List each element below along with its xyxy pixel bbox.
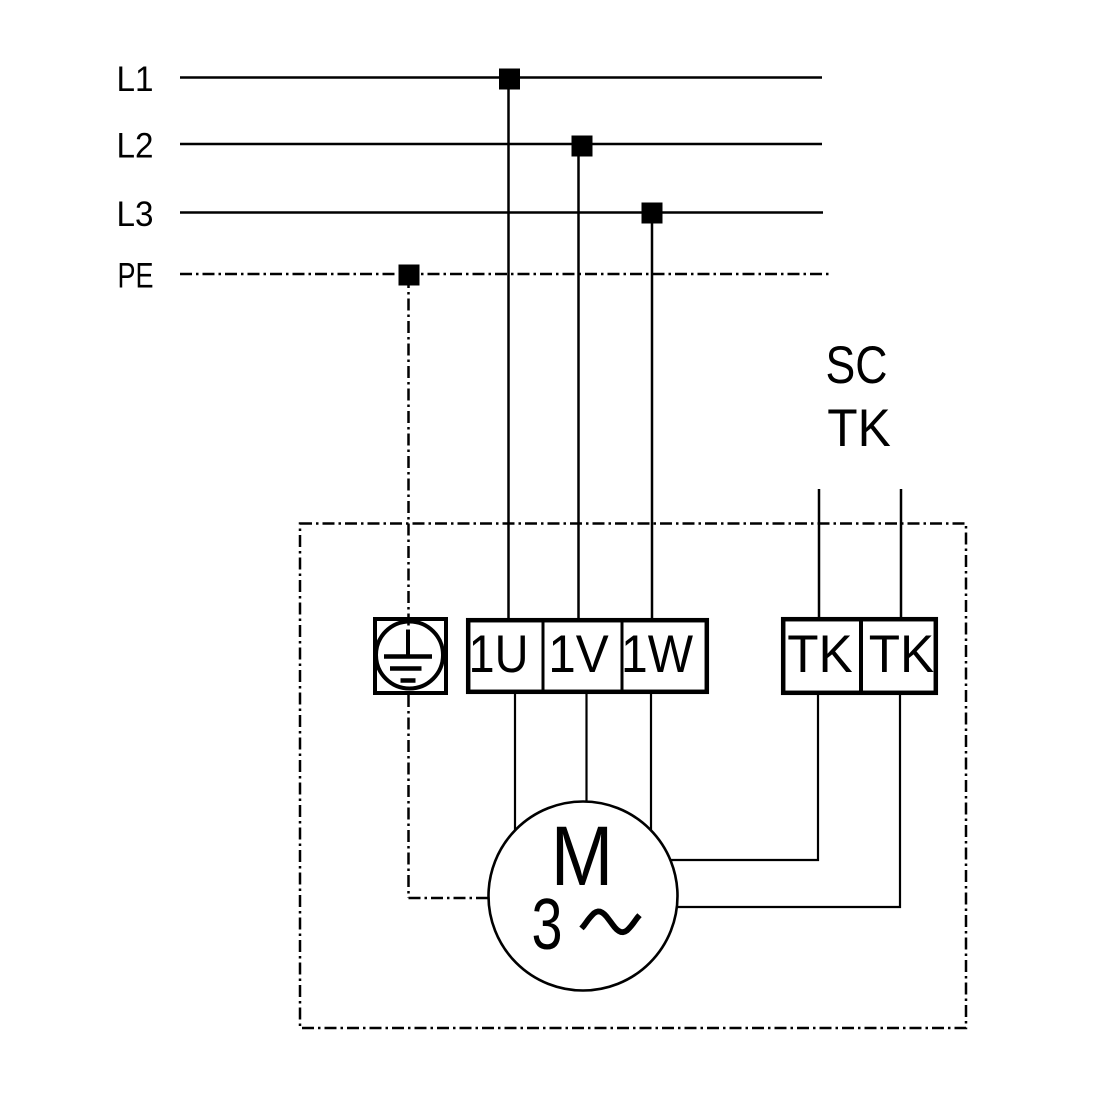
svg-text:L1: L1 xyxy=(117,60,154,99)
svg-text:TK: TK xyxy=(827,399,891,458)
svg-text:1V: 1V xyxy=(548,625,609,684)
svg-text:1W: 1W xyxy=(621,625,693,684)
svg-text:PE: PE xyxy=(118,257,154,296)
svg-text:L3: L3 xyxy=(117,195,154,234)
svg-text:1U: 1U xyxy=(469,625,529,684)
svg-text:TK: TK xyxy=(787,625,853,684)
svg-text:TK: TK xyxy=(869,625,935,684)
svg-text:3: 3 xyxy=(532,885,563,965)
svg-text:SC: SC xyxy=(826,336,888,395)
svg-text:L2: L2 xyxy=(117,127,154,166)
